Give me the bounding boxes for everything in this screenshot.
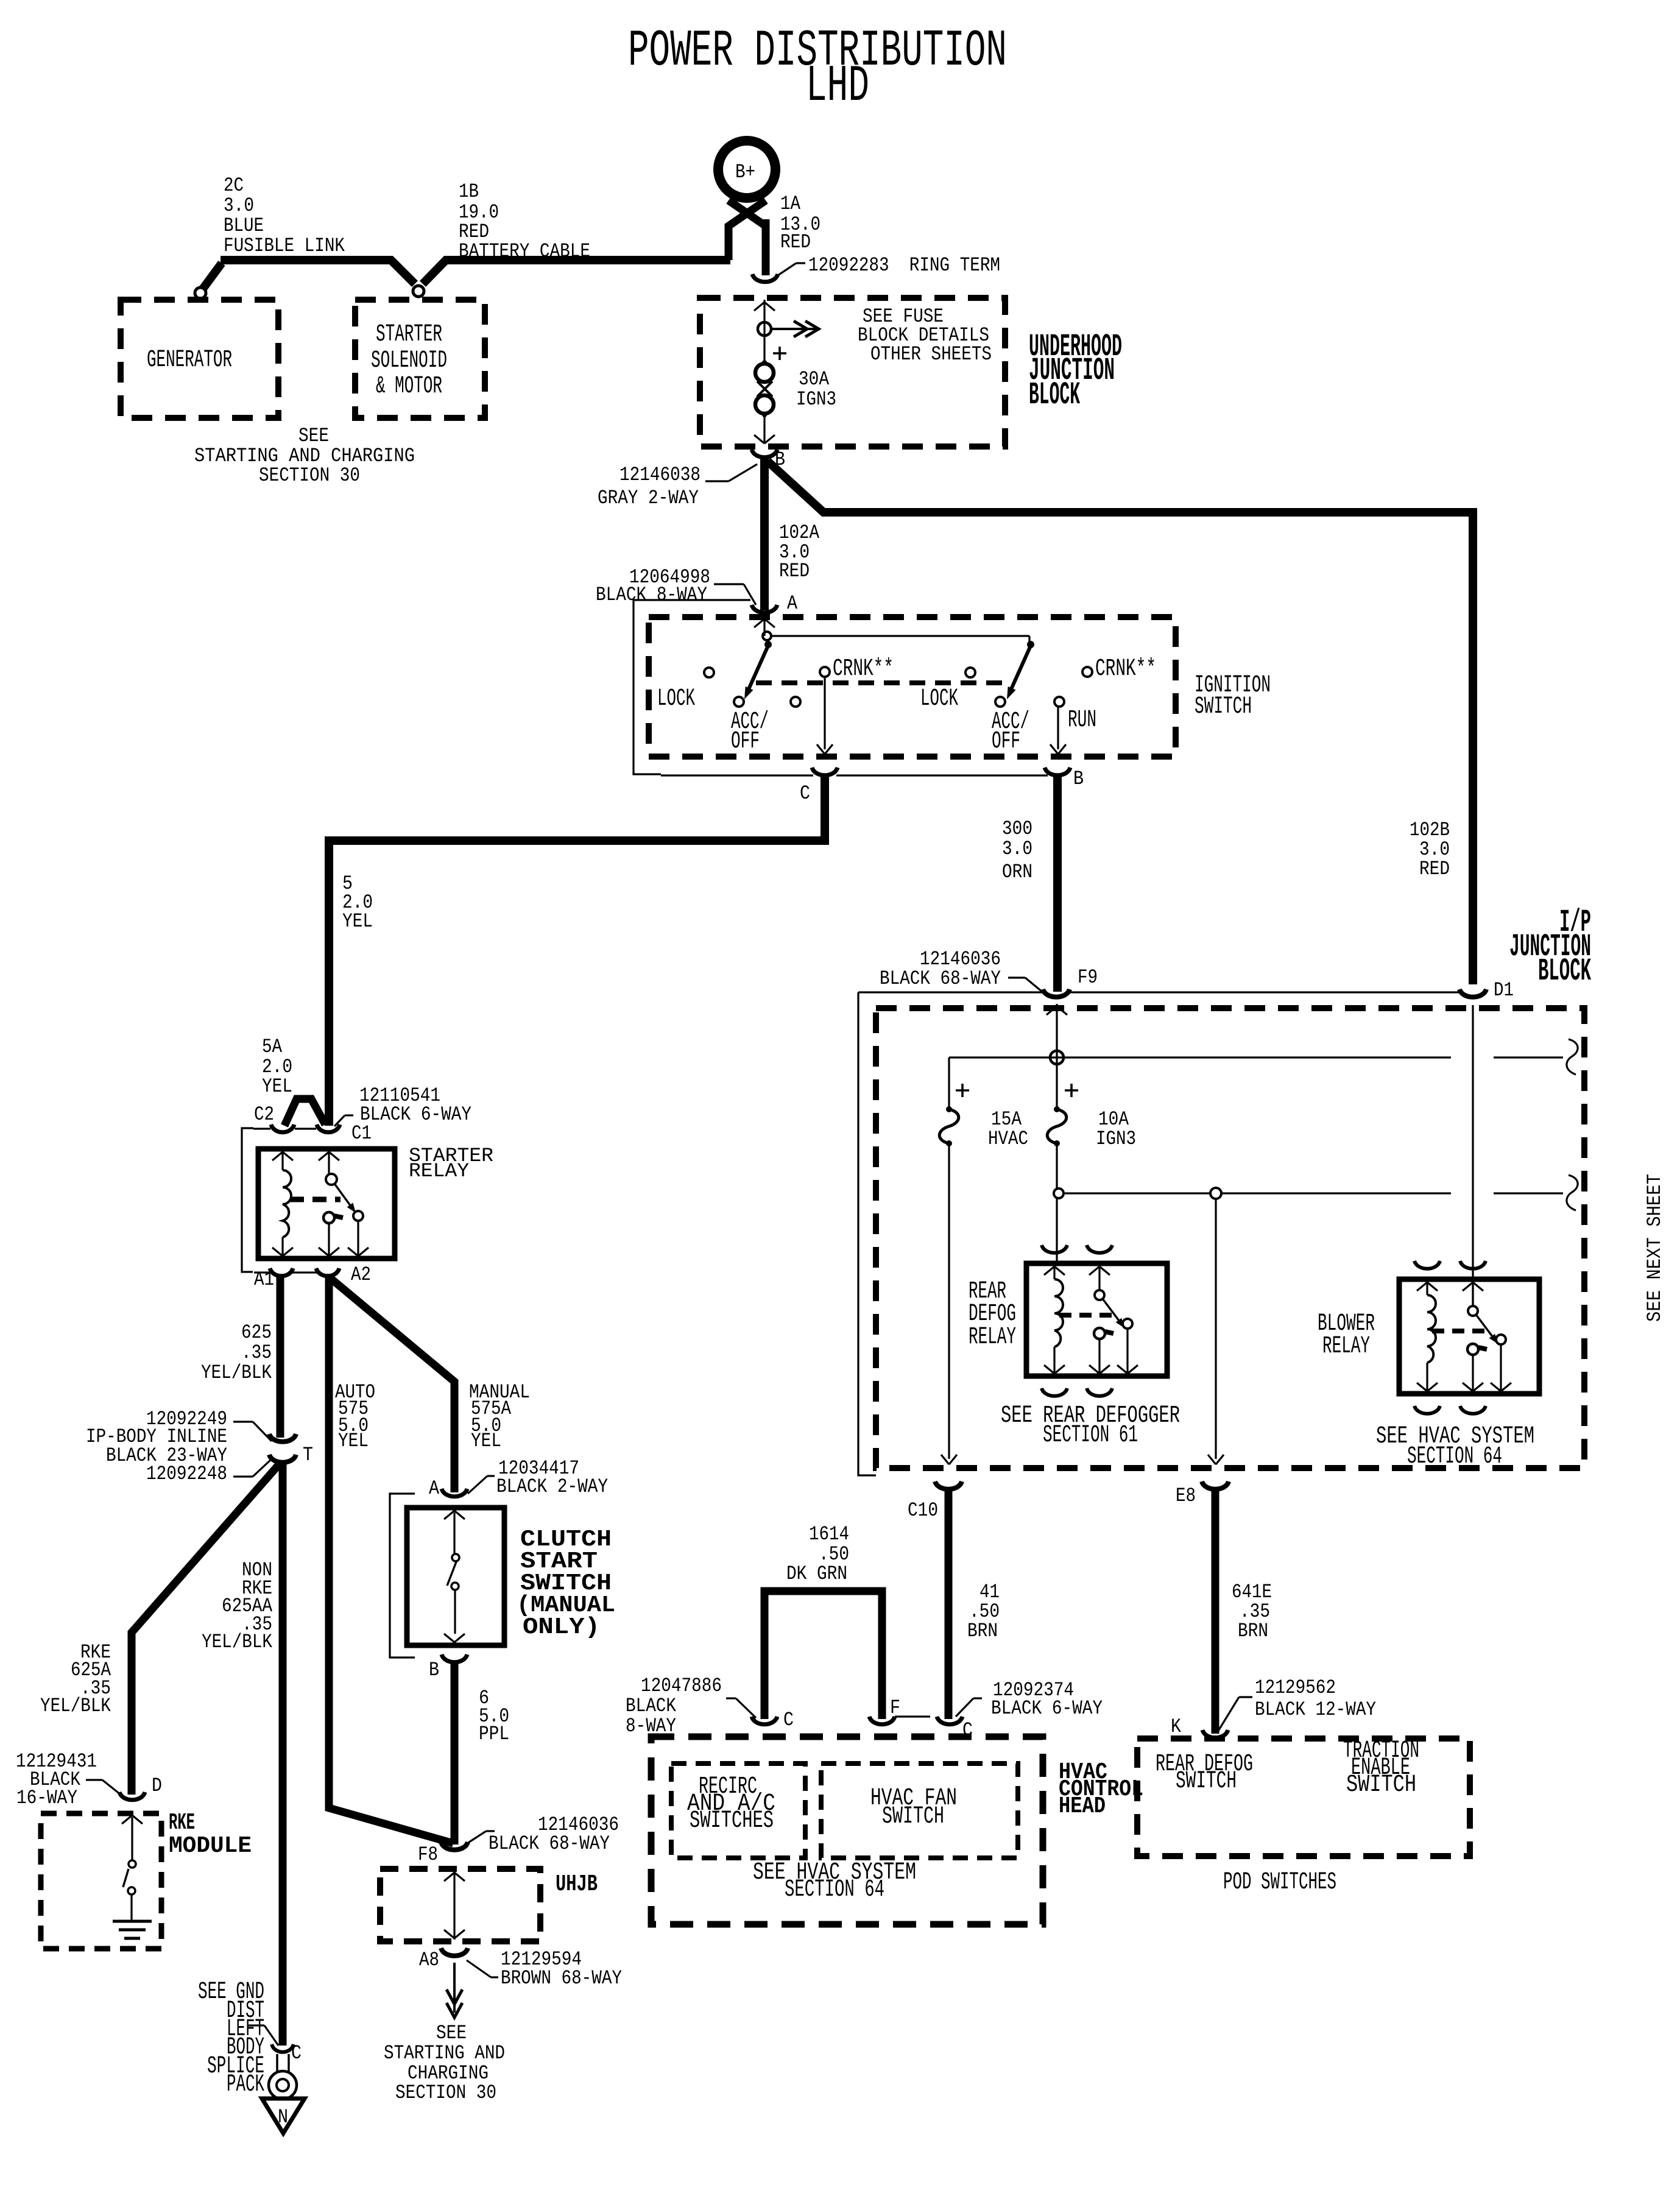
RKE module pin arrow [122, 1815, 132, 1824]
contact LOCK left [704, 668, 714, 677]
node feed [763, 632, 771, 640]
inline connector T 12092249/12092248 [269, 1434, 296, 1442]
svg-text:BRN: BRN [967, 1620, 998, 1642]
svg-text:SECTION 30: SECTION 30 [395, 2081, 496, 2104]
svg-text:RED: RED [1419, 858, 1450, 880]
pod switches box [1137, 1739, 1470, 1856]
starter relay switch pivot [328, 1152, 330, 1174]
svg-text:UHJB: UHJB [556, 1871, 598, 1898]
svg-text:YEL/BLK: YEL/BLK [40, 1695, 111, 1717]
ground triangle N [262, 2099, 305, 2133]
svg-text:PPL: PPL [479, 1723, 509, 1745]
svg-text:SWITCHES: SWITCHES [690, 1807, 774, 1835]
svg-text:YEL/BLK: YEL/BLK [201, 1361, 272, 1384]
blower relay NO contact [1496, 1335, 1506, 1344]
svg-text:A: A [429, 1477, 440, 1500]
rear defog relay connector arcs top [1042, 1245, 1067, 1253]
svg-text:HVAC: HVAC [988, 1128, 1028, 1150]
svg-text:BLACK 68-WAY: BLACK 68-WAY [489, 1832, 610, 1855]
left wiper lever [747, 646, 768, 693]
connector C at splice pack [272, 2044, 294, 2052]
contact LOCK right [965, 668, 975, 677]
recirc and a/c switches box [671, 1763, 805, 1858]
svg-text:LOCK: LOCK [657, 685, 695, 713]
svg-text:RUN: RUN [1068, 707, 1096, 734]
svg-text:BLUE: BLUE [224, 214, 264, 237]
connector F8 of UHJB [441, 1842, 468, 1850]
rear defog relay coil [1053, 1266, 1055, 1279]
break symbol bus 2 [1567, 1175, 1578, 1210]
contact ACC/OFF left [734, 697, 744, 707]
I/P junction block bracket [858, 992, 876, 1475]
rear defog relay box [1026, 1263, 1167, 1376]
plus sign 10A [1065, 1089, 1078, 1092]
svg-text:SEE: SEE [298, 425, 329, 447]
wire NON RKE 625AA .35 YEL/BLK [279, 1463, 287, 2046]
svg-text:FUSIBLE LINK: FUSIBLE LINK [224, 235, 345, 257]
blower relay coil [1426, 1282, 1428, 1295]
rear defog relay switch pivot [1098, 1266, 1100, 1290]
starter solenoid box [355, 300, 485, 418]
svg-text:12092283 RING TERM: 12092283 RING TERM [808, 254, 1000, 277]
arrow RUN to B terminal [1057, 707, 1059, 749]
svg-text:YEL: YEL [471, 1430, 501, 1452]
wire MANUAL 575A 5.0 YEL from A2 [330, 1278, 454, 1492]
svg-text:BLACK 12-WAY: BLACK 12-WAY [1255, 1698, 1376, 1721]
connector C of ignition switch [812, 768, 838, 775]
wire 641E .35 BRN from E8 [1212, 1490, 1219, 1734]
blower relay NC contact [1467, 1344, 1478, 1355]
svg-text:OTHER SHEETS: OTHER SHEETS [870, 343, 992, 365]
svg-text:LHD: LHD [806, 58, 869, 116]
wire A into ignition switch [763, 619, 765, 636]
node at starter solenoid [413, 286, 424, 297]
blower relay pin arrows bottom [1417, 1383, 1427, 1391]
connector C1 [317, 1124, 340, 1132]
svg-text:1614: 1614 [809, 1523, 849, 1545]
fuse 30A IGN3 [755, 364, 774, 382]
wire 10A to rear defog relay coil [1056, 1198, 1057, 1263]
connector D1 [1459, 989, 1486, 997]
svg-text:YEL/BLK: YEL/BLK [202, 1631, 273, 1653]
svg-text:BATTERY CABLE: BATTERY CABLE [459, 240, 590, 263]
feed line to right wiper [771, 635, 1029, 637]
svg-text:MODULE: MODULE [169, 1833, 252, 1859]
connector A of ignition switch [752, 605, 777, 613]
arrow to starting and charging [453, 1963, 456, 2013]
ignition switch box [649, 617, 1176, 757]
svg-text:OFF: OFF [731, 728, 760, 755]
blower relay switch pivot [1472, 1282, 1474, 1306]
arrow to fuse block details [771, 328, 819, 330]
svg-text:F9: F9 [1078, 966, 1098, 989]
rear defog relay NO contact [1123, 1319, 1132, 1329]
node crossed circle at F9 bus [1050, 1051, 1064, 1064]
UHJB internal wire [453, 1871, 455, 1940]
plus sign 15A [956, 1089, 969, 1092]
battery X junction [729, 200, 766, 260]
starter relay coil [281, 1152, 283, 1170]
wire 15A fuse down to C10 [948, 1143, 950, 1459]
svg-text:RELAY: RELAY [969, 1324, 1016, 1351]
rear defog relay switch lever [1103, 1299, 1121, 1323]
pin arrow bottom [754, 435, 764, 443]
svg-text:3.0: 3.0 [1002, 838, 1032, 860]
svg-text:300: 300 [1002, 817, 1032, 840]
wire RKE 625A .35 YEL/BLK branch [132, 1464, 279, 1795]
left wiper pivot [764, 641, 772, 648]
battery positive terminal B+ [718, 141, 775, 198]
svg-text:GRAY 2-WAY: GRAY 2-WAY [598, 487, 699, 509]
right wiper pivot [1027, 641, 1034, 648]
svg-text:SECTION 30: SECTION 30 [259, 464, 360, 487]
blower relay pin arrows top [1417, 1282, 1427, 1291]
contact CRNK right [1082, 667, 1092, 677]
svg-text:SWITCH: SWITCH [1346, 1771, 1416, 1799]
connector C10 [935, 1481, 962, 1489]
contact RUN [1054, 697, 1064, 707]
svg-text:SECTION 61: SECTION 61 [1043, 1422, 1138, 1449]
connector A8 of UHJB [441, 1948, 468, 1956]
wire 102A 3.0 RED [760, 458, 769, 610]
wire 102B branch to I/P block [768, 461, 1473, 984]
svg-text:SWITCH: SWITCH [1176, 1768, 1237, 1795]
svg-text:30A: 30A [799, 368, 830, 390]
svg-text:12146038: 12146038 [619, 464, 701, 486]
svg-text:F8: F8 [418, 1843, 438, 1866]
bus line 2 [1064, 1192, 1210, 1194]
right wiper lever [1009, 646, 1031, 693]
svg-text:C2: C2 [254, 1103, 274, 1126]
connector D of RKE module [119, 1792, 145, 1800]
svg-text:2C: 2C [224, 174, 244, 197]
I/P junction block box [876, 1008, 1584, 1468]
svg-text:YEL: YEL [338, 1430, 369, 1452]
wire jumper C1 to C2 [284, 1099, 325, 1126]
ignition switch outer bracket [634, 600, 750, 774]
break symbol bus 1 [1567, 1039, 1578, 1075]
svg-text:OFF: OFF [992, 728, 1020, 755]
svg-text:ORN: ORN [1002, 861, 1032, 883]
blower relay connector arcs bottom [1414, 1406, 1440, 1414]
RKE module switch [131, 1817, 133, 1860]
svg-text:BLACK 68-WAY: BLACK 68-WAY [880, 967, 1001, 990]
svg-text:SWITCH: SWITCH [882, 1803, 944, 1830]
svg-text:12047886: 12047886 [641, 1675, 722, 1697]
bus line 1 corner down to 15A fuse [948, 1057, 950, 1108]
svg-text:C: C [800, 782, 810, 805]
svg-text:BLACK 2-WAY: BLACK 2-WAY [496, 1475, 608, 1498]
connector B of clutch start switch [442, 1654, 467, 1662]
wire E8 down [1215, 1199, 1216, 1459]
svg-text:BLOCK: BLOCK [1538, 953, 1591, 989]
pin arrow top [754, 302, 764, 311]
svg-text:& MOTOR: & MOTOR [376, 373, 442, 400]
wire 6 5.0 PPL [451, 1662, 459, 1845]
blower relay connector arcs top [1414, 1261, 1440, 1269]
connector E8 [1202, 1481, 1229, 1489]
connector A of clutch start switch [442, 1489, 467, 1497]
starter relay pin arrows bottom [272, 1248, 283, 1256]
wire 41 .50 BRN from C10 [945, 1490, 953, 1719]
connector C2 [271, 1124, 294, 1132]
wire 1614 .50 DK GRN staple [764, 1591, 882, 1719]
svg-text:3.0: 3.0 [224, 194, 254, 217]
underhood junction block box [700, 298, 1005, 447]
svg-text:1B: 1B [459, 180, 479, 203]
svg-text:RED: RED [779, 560, 810, 582]
starter relay box [258, 1149, 395, 1259]
svg-text:IGN3: IGN3 [1096, 1128, 1136, 1150]
svg-text:YEL: YEL [262, 1075, 292, 1098]
svg-text:A: A [787, 592, 798, 615]
wire 5 2.0 YEL from ignition C [329, 776, 825, 1126]
svg-text:A1: A1 [254, 1268, 274, 1291]
svg-text:D1: D1 [1494, 979, 1514, 1001]
rear defog relay connector arcs bottom [1042, 1388, 1067, 1396]
svg-text:A2: A2 [351, 1263, 371, 1286]
svg-text:CRNK**: CRNK** [833, 655, 894, 683]
blower relay armature dashed link [1432, 1329, 1485, 1333]
svg-text:12092248: 12092248 [146, 1463, 227, 1485]
svg-text:K: K [1171, 1715, 1182, 1738]
starter relay lever [334, 1184, 352, 1208]
HVAC fan switch box [821, 1763, 1018, 1858]
svg-text:1A: 1A [780, 192, 801, 215]
fuse 15A HVAC [939, 1109, 959, 1143]
svg-text:625: 625 [241, 1321, 272, 1344]
svg-text:C10: C10 [908, 1499, 938, 1522]
wire D1 down to blower relay [1472, 1005, 1474, 1307]
wire inside underhood block [763, 300, 765, 364]
clutch start switch box [407, 1508, 504, 1645]
svg-text:RKE: RKE [169, 1810, 195, 1836]
svg-text:B: B [429, 1659, 439, 1681]
svg-text:.35: .35 [241, 1341, 272, 1364]
svg-text:B+: B+ [735, 161, 755, 183]
clutch start switch internals [444, 1511, 454, 1519]
svg-text:BLACK 8-WAY: BLACK 8-WAY [596, 584, 707, 606]
svg-text:SEE NEXT SHEET: SEE NEXT SHEET [1643, 1174, 1666, 1322]
blower relay switch lever [1476, 1315, 1494, 1339]
svg-text:BLACK 6-WAY: BLACK 6-WAY [991, 1697, 1103, 1720]
mechanical link dashed [756, 680, 1002, 685]
svg-text:5A: 5A [262, 1036, 283, 1058]
arrow CRNK to C terminal [824, 677, 825, 749]
ground symbol in RKE module [113, 1920, 152, 1923]
svg-text:SOLENOID: SOLENOID [371, 347, 447, 375]
svg-text:E8: E8 [1176, 1485, 1196, 1507]
wire F9 into block [1056, 1004, 1057, 1052]
svg-text:PACK: PACK [227, 2071, 264, 2099]
contact CRNK left [820, 667, 830, 677]
connector C at HVAC fan switch [937, 1717, 962, 1725]
contact mid [791, 697, 800, 707]
svg-text:SECTION 64: SECTION 64 [1407, 1443, 1502, 1470]
connector A2 [316, 1268, 339, 1276]
ring terminal connector 12092283 [752, 274, 778, 282]
RKE module box [41, 1813, 161, 1949]
fuse 10A IGN3 [1056, 1064, 1057, 1108]
svg-text:SECTION 64: SECTION 64 [785, 1876, 884, 1904]
clutch start switch bracket [390, 1494, 415, 1657]
node at bus 2 [1054, 1188, 1064, 1198]
svg-text:GENERATOR: GENERATOR [147, 347, 232, 374]
connector K of pod switches [1202, 1730, 1228, 1738]
connector B of underhood block [752, 450, 777, 457]
node E8 tap [1210, 1188, 1221, 1199]
generator box [121, 300, 278, 418]
svg-text:N: N [278, 2106, 288, 2128]
rear defog relay pin arrows top [1044, 1266, 1054, 1275]
node circle see-fuse tap [758, 322, 771, 336]
starter relay bracket [242, 1128, 253, 1272]
wire 1A 13.0 RED [762, 219, 770, 275]
svg-text:BRN: BRN [1238, 1620, 1268, 1642]
connector B of ignition switch [1045, 768, 1070, 775]
connector C at HVAC recirc [752, 1717, 777, 1725]
blower relay box [1399, 1279, 1539, 1394]
ring terminal to ground [276, 2054, 278, 2072]
bus line 1 [949, 1056, 1451, 1058]
svg-text:16-WAY: 16-WAY [16, 1787, 77, 1809]
HVAC control head box [651, 1737, 1043, 1924]
svg-text:STARTER: STARTER [376, 321, 442, 348]
connector F9 [1043, 989, 1070, 997]
svg-text:B: B [1073, 768, 1084, 790]
wire 10A fuse down [1056, 1143, 1057, 1188]
connector A1 [270, 1268, 293, 1276]
svg-text:STARTING AND: STARTING AND [384, 2042, 505, 2064]
starter relay dashed link [290, 1197, 341, 1202]
connector F at HVAC fan switch [869, 1717, 895, 1725]
svg-text:POD SWITCHES: POD SWITCHES [1223, 1869, 1336, 1896]
svg-text:HEAD: HEAD [1059, 1793, 1106, 1820]
svg-text:SWITCH: SWITCH [1195, 693, 1252, 721]
svg-text:YEL: YEL [342, 910, 373, 933]
svg-text:DK GRN: DK GRN [786, 1562, 847, 1585]
svg-text:SEE: SEE [436, 2022, 467, 2044]
plus sign [773, 352, 786, 355]
svg-text:C: C [783, 1709, 794, 1731]
svg-text:C: C [291, 2042, 302, 2064]
wire fusible link to generator [203, 263, 222, 289]
svg-text:RED: RED [780, 231, 811, 253]
starter relay pin arrows top [272, 1152, 283, 1160]
wire AUTO 575 5.0 YEL from A2 [329, 1277, 453, 1843]
wire 300 3.0 ORN from ignition B [1053, 776, 1062, 992]
svg-text:BROWN 68-WAY: BROWN 68-WAY [501, 1967, 622, 1989]
wire 625 .35 YEL/BLK from A1 [277, 1277, 284, 1438]
svg-text:T: T [303, 1444, 313, 1466]
svg-text:RELAY: RELAY [409, 1160, 469, 1182]
node at generator [195, 288, 206, 298]
starter relay NO contact [353, 1211, 363, 1221]
rear defog relay armature dashed link [1059, 1313, 1112, 1318]
wire battery cable [221, 260, 415, 284]
svg-text:CRNK**: CRNK** [1095, 655, 1156, 683]
contact ACC/OFF right [995, 697, 1005, 707]
rear defog relay NC contact [1094, 1328, 1105, 1339]
svg-text:BLOCK: BLOCK [1029, 377, 1080, 413]
svg-text:LOCK: LOCK [920, 685, 958, 713]
svg-text:BLACK 6-WAY: BLACK 6-WAY [360, 1103, 471, 1126]
svg-text:D: D [152, 1774, 162, 1797]
UHJB box [380, 1869, 540, 1941]
svg-text:ONLY): ONLY) [523, 1614, 600, 1640]
svg-text:BLACK: BLACK [626, 1695, 677, 1717]
rear defog relay pin arrows bottom [1044, 1365, 1054, 1374]
svg-text:IGN3: IGN3 [796, 388, 836, 411]
svg-text:12129562: 12129562 [1255, 1676, 1336, 1699]
starter relay NC contact [323, 1212, 334, 1223]
svg-text:A8: A8 [419, 1949, 439, 1971]
svg-text:RELAY: RELAY [1322, 1333, 1370, 1360]
